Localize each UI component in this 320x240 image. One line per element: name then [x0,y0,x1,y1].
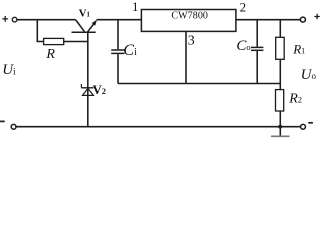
svg-text:V1: V1 [79,7,91,19]
wire R to base [64,41,88,43]
wire pin2 to output [236,19,300,21]
resistor R1 [276,37,285,59]
bottom rail [16,126,300,128]
resistor R [44,38,64,44]
terminal output + [300,17,305,22]
wire to R1 [279,20,281,38]
wire top-left [17,19,76,21]
svg-text:Uo: Uo [301,67,317,83]
terminal input + [12,17,17,22]
ground [271,127,290,137]
svg-text:CW7800: CW7800 [171,11,208,22]
junction dot [278,125,282,129]
svg-text:R2: R2 [288,92,302,107]
svg-text:Co: Co [236,38,250,54]
terminal input - [11,124,16,129]
plus sign input [2,16,8,22]
svg-text:2: 2 [240,0,247,14]
capacitor Ci [111,20,124,84]
pin 3 wire [185,31,187,83]
capacitor Co [251,20,263,84]
minus sign input [0,120,5,122]
resistor R2 [276,90,284,111]
svg-text:3: 3 [188,34,195,49]
terminal output - [301,124,306,129]
IC CW7800 box [141,10,236,32]
svg-text:V2: V2 [93,82,106,97]
wire R2 to rail [279,111,281,127]
node line pin3 net [118,83,280,85]
wire V1 emitter to IC pin1 [97,19,142,21]
svg-text:1: 1 [132,0,139,14]
svg-text:Ci: Ci [123,42,137,59]
minus sign output [308,122,313,124]
transistor V1 [72,20,98,127]
zener diode V2 [81,84,93,95]
svg-text:R1: R1 [292,42,305,57]
svg-text:Ui: Ui [2,62,16,78]
svg-text:R: R [45,47,55,62]
wire R branch drop [37,20,43,42]
wire R1 to R2 [279,59,281,89]
plus sign output [314,14,319,19]
